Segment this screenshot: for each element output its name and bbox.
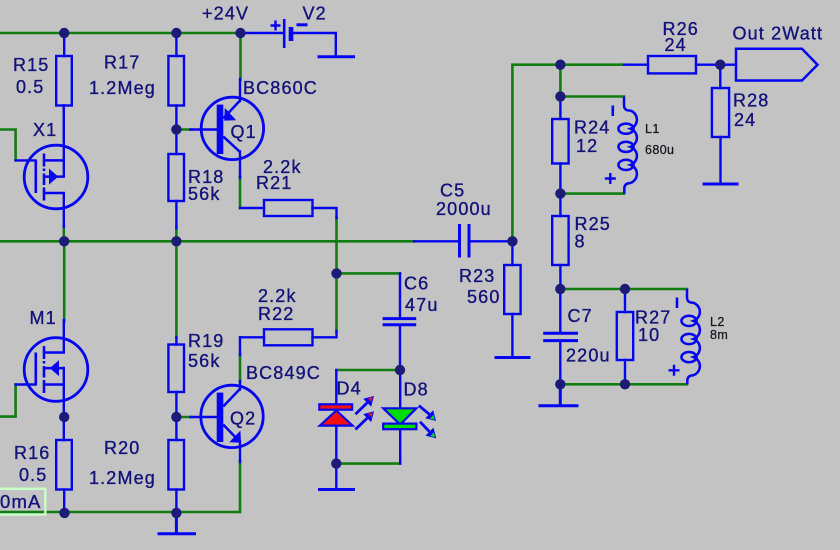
inductor L1 polarity bar: [611, 106, 614, 117]
resistor R24 leads: [559, 97, 561, 194]
junction (560,64) output node: [555, 59, 565, 69]
resistor R28 leads: [719, 65, 722, 183]
svg-text:0.5: 0.5: [16, 77, 44, 97]
junction (400,370) C6-D8 node: [395, 365, 405, 375]
wire Q2 emitter down to bottom rail: [239, 461, 242, 512]
wire output node down to R24 top node: [559, 65, 562, 97]
output connector Out 2Watt: [736, 49, 818, 81]
wire Q2 collector to R22: [239, 354, 242, 382]
wire Q1 base stub: [176, 128, 191, 131]
svg-text:R21: R21: [256, 173, 292, 193]
svg-text:M1: M1: [30, 308, 57, 328]
junction (625,384) R27 bottom node: [620, 379, 630, 389]
resistor R16 leads: [63, 490, 65, 513]
svg-text:1.2Meg: 1.2Meg: [89, 78, 156, 98]
wire bottom rail: [0, 511, 240, 514]
wire M1 drain to mid rail: [63, 241, 66, 322]
wire X1 gate lead: [16, 159, 36, 161]
battery V2 plates: [283, 19, 286, 48]
capacitor C5 plates: [460, 224, 470, 258]
wire M1 gate from left edge: [0, 385, 16, 417]
wire D4 bottom node to D8 bottom: [336, 462, 400, 465]
svg-text:BC849C: BC849C: [246, 363, 321, 383]
wire output node to R26 left: [560, 63, 624, 66]
svg-text:Q2: Q2: [230, 409, 256, 429]
resistor R24 body: [552, 119, 568, 164]
resistor R22 leads: [240, 331, 337, 337]
mosfet X1: [24, 145, 88, 209]
junction (240,33): [235, 28, 245, 38]
junction (64,417) M1 source node: [59, 412, 69, 422]
svg-text:56k: 56k: [188, 184, 220, 204]
wire node A down to R22 right: [335, 273, 338, 332]
resistor R25 leads: [559, 194, 561, 289]
junction (176,33): [171, 28, 181, 38]
svg-text:X1: X1: [33, 120, 57, 140]
wire +24V top rail: [0, 32, 241, 35]
svg-text:R23: R23: [459, 266, 495, 286]
svg-text:8: 8: [575, 232, 586, 252]
resistor R23 body: [504, 265, 520, 314]
resistor R16 body: [56, 440, 72, 490]
svg-text:0mA: 0mA: [0, 491, 42, 512]
transistor Q1 BC860C: [201, 97, 263, 159]
resistor R17 body: [168, 56, 184, 106]
svg-text:24: 24: [665, 35, 687, 55]
svg-text:220u: 220u: [566, 346, 611, 366]
junction (336,273) node A: [331, 268, 341, 278]
junction (176,513) bottom rail: [171, 508, 181, 518]
junction (64,513) bottom rail: [59, 508, 69, 518]
wire Q1 collector to R21: [239, 177, 242, 208]
ground below D4: [320, 488, 354, 491]
resistor R26 body: [648, 56, 696, 73]
inductor L1 plus sign: [605, 173, 616, 184]
LED D8 leads: [399, 370, 401, 464]
svg-text:L2: L2: [710, 315, 725, 329]
wire M1 source lead: [63, 368, 65, 440]
wire Q1 base lead: [191, 128, 217, 130]
junction (176,241) mid rail: [171, 236, 181, 246]
svg-text:10: 10: [638, 325, 660, 345]
inductor L2 polarity bar: [676, 298, 679, 309]
junction (560,96) R24-L1 top: [555, 91, 565, 101]
capacitor C5 leads: [414, 240, 512, 242]
resistor R27 body: [617, 312, 633, 360]
svg-text:47u: 47u: [405, 295, 438, 315]
svg-text:12: 12: [576, 136, 598, 156]
wire R19 top to mid rail: [175, 241, 178, 338]
svg-text:L1: L1: [645, 122, 660, 136]
wire R25 bottom node rail to L2 top: [560, 288, 687, 291]
LED D4: [319, 396, 374, 430]
capacitor C7 leads: [559, 289, 561, 384]
wire X1 source lead: [63, 193, 65, 227]
resistor R27 leads: [624, 289, 626, 384]
wire Q1 emitter to +24V rail: [239, 33, 242, 80]
wire node A to C6 top: [337, 272, 401, 275]
junction (176,129) Q1 base node: [171, 124, 181, 134]
svg-text:BC860C: BC860C: [243, 78, 318, 98]
wire M1 drain lead: [63, 320, 65, 353]
wire Q2 collector lead: [239, 337, 241, 389]
svg-text:C5: C5: [440, 181, 465, 201]
wire C5 node up and right to output node: [512, 65, 560, 242]
svg-text:R24: R24: [574, 118, 610, 138]
junction (625,289) R27 top node: [620, 284, 630, 294]
ground below R23: [496, 356, 529, 359]
svg-text:R28: R28: [733, 91, 769, 111]
wire Q1 collector lead: [239, 152, 241, 179]
svg-text:8m: 8m: [710, 328, 728, 342]
junction (560,193) R24-L1 bottom: [555, 188, 565, 198]
resistor R20 body: [168, 440, 184, 490]
wire X1 source to mid rail: [62, 226, 65, 241]
resistor R26 leads: [624, 63, 736, 65]
resistor R21 leads: [240, 208, 337, 218]
junction (64,241) mid rail: [59, 236, 69, 246]
LED D4 top lead: [335, 370, 337, 404]
transistor Q2 BC849C: [201, 385, 263, 447]
junction (512,241) C5-R23 node: [507, 236, 517, 246]
resistor R23 leads: [511, 241, 513, 356]
junction (560,384) C7 bottom node: [555, 379, 565, 389]
svg-text:2.2k: 2.2k: [258, 286, 297, 306]
svg-text:R19: R19: [188, 331, 224, 351]
svg-text:56k: 56k: [188, 351, 220, 371]
capacitor C6 plates: [383, 319, 417, 325]
wire C7 bottom rail to L2 bottom: [560, 383, 687, 386]
resistor R17 leads: [175, 33, 177, 130]
wire mid rail node: [0, 240, 415, 243]
wire Q2 base stub: [176, 416, 191, 419]
resistor R18 leads: [175, 130, 177, 229]
capacitor C6 leads: [399, 273, 401, 370]
svg-text:D4: D4: [337, 379, 362, 399]
resistor R22 body: [264, 329, 313, 345]
wire Q2 emitter lead: [239, 442, 241, 463]
svg-text:V2: V2: [303, 4, 327, 24]
wire R18 bottom to mid rail: [175, 227, 178, 241]
svg-text:R22: R22: [258, 304, 294, 324]
junction (560,289) R25-C7 node: [555, 284, 565, 294]
svg-text:C6: C6: [404, 274, 429, 294]
wire M1 gate lead: [16, 383, 36, 385]
svg-text:D8: D8: [404, 380, 429, 400]
ground below C7: [540, 384, 577, 406]
junction (336,463) D4 cathode node: [331, 458, 341, 468]
svg-text:R17: R17: [104, 53, 140, 73]
resistor R25 body: [552, 216, 568, 265]
wire Q1 emitter lead: [239, 79, 241, 101]
LED D4 bottom lead and ground lead: [335, 426, 337, 490]
battery V2 plus sign: [271, 21, 281, 31]
svg-text:24: 24: [734, 110, 756, 130]
resistor R19 body: [168, 345, 184, 393]
svg-text:R20: R20: [104, 438, 140, 458]
svg-text:680u: 680u: [645, 143, 674, 157]
wire X1 gate from left edge: [0, 130, 16, 161]
svg-text:1.2Meg: 1.2Meg: [89, 468, 156, 488]
LED D8: [383, 406, 436, 439]
mosfet M1: [24, 338, 88, 402]
inductor L1: [605, 97, 637, 194]
resistor R15 leads: [63, 33, 66, 146]
wire C6 bottom node to D4 top: [337, 369, 400, 372]
svg-text:Out 2Watt: Out 2Watt: [733, 24, 824, 44]
svg-text:2000u: 2000u: [436, 199, 492, 219]
wire X1 drain lead: [63, 106, 65, 177]
ground below V2: [319, 55, 354, 58]
svg-text:R16: R16: [14, 443, 50, 463]
resistor R19 leads: [175, 337, 177, 417]
current probe box 0mA: [0, 489, 45, 515]
junction (720,64) out connector node: [715, 59, 725, 69]
resistor R20 leads: [175, 417, 177, 512]
resistor R21 body: [264, 200, 313, 216]
inductor L2: [669, 289, 700, 384]
wire battery V2 leads: [241, 33, 336, 56]
inductor L2 plus sign: [669, 365, 680, 376]
ground below bottom rail: [159, 512, 195, 534]
resistor R28 body: [712, 88, 729, 137]
wire R24 bottom node to L1 bottom: [560, 192, 624, 195]
wire R21 right down to node A: [335, 217, 338, 273]
resistor R18 body: [168, 154, 184, 201]
capacitor C7 plates: [543, 333, 578, 340]
svg-text:Q1: Q1: [231, 122, 257, 142]
junction (64,33): [59, 28, 69, 38]
svg-text:R15: R15: [13, 55, 49, 75]
resistor R15 body: [56, 56, 72, 106]
battery V2 minus sign: [297, 23, 308, 26]
svg-text:0.5: 0.5: [19, 465, 47, 485]
svg-text:C7: C7: [568, 306, 593, 326]
wire Q2 base lead: [191, 416, 217, 418]
ground below R28: [704, 183, 737, 186]
svg-text:+24V: +24V: [202, 4, 249, 24]
svg-text:560: 560: [467, 287, 500, 307]
wire R24 top node to L1 top: [560, 95, 624, 98]
junction (176,417) Q2 base node: [171, 412, 181, 422]
